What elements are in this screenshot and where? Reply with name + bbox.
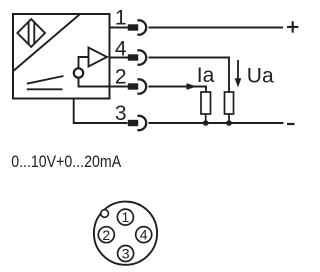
- resistor load Ia bottom lead: [205, 114, 207, 123]
- connector plug pin 4 (rect): [128, 54, 138, 60]
- resistor load Ua: [225, 92, 234, 114]
- inductive sensor symbol (diamond): [17, 19, 45, 47]
- junction dot node A: [203, 120, 209, 126]
- svg-text:0...10V+0...20mA: 0...10V+0...20mA: [11, 153, 121, 171]
- connector plug pin 2 (rect): [128, 83, 138, 89]
- wire 3 negative rail: [149, 122, 284, 124]
- svg-text:3: 3: [115, 102, 127, 125]
- voltage arrow Ua head: [235, 78, 242, 87]
- svg-text:1: 1: [122, 209, 130, 225]
- pin 2 circle: [98, 227, 114, 243]
- connector socket arc 1: [137, 20, 146, 34]
- svg-text:1: 1: [115, 7, 127, 30]
- wire 4 to Ua load: [149, 58, 230, 93]
- voltage arrow Ua shaft: [237, 60, 239, 80]
- wire 1 to plus terminal: [149, 27, 284, 29]
- wire 2 to Ia load: [149, 87, 207, 93]
- connector socket arc 4: [137, 50, 146, 64]
- plus terminal symbol: [287, 21, 298, 32]
- svg-text:2: 2: [115, 66, 127, 89]
- connector socket arc 2: [137, 79, 146, 93]
- keying notch: [101, 210, 109, 218]
- resistor load Ua bottom lead: [228, 114, 230, 123]
- current arrow Ia head: [187, 83, 197, 90]
- wire from amplifier input to output stage: [79, 57, 89, 68]
- svg-text:Ia: Ia: [197, 64, 215, 87]
- minus terminal symbol: [287, 123, 295, 125]
- connector socket arc 3: [137, 116, 146, 130]
- inductive sensor symbol right chord: [33, 22, 35, 44]
- amplifier triangle: [89, 48, 108, 67]
- M12 connector face outline: [94, 202, 157, 265]
- svg-text:2: 2: [102, 227, 110, 243]
- wire 2 from block: [110, 86, 128, 88]
- pin 1 circle: [117, 209, 133, 225]
- connector plug pin 3 (rect): [128, 120, 138, 126]
- adjustment mark lower line: [27, 88, 63, 90]
- pin 3 circle: [118, 246, 134, 262]
- wire 4 from block: [110, 57, 128, 59]
- svg-text:4: 4: [140, 227, 148, 243]
- resistor load Ia: [201, 92, 211, 114]
- junction dot node B: [226, 120, 232, 126]
- pin 4 circle: [136, 227, 152, 243]
- wire from output circle to pin2 exit: [79, 78, 111, 87]
- connector plug pin 1 (rect): [128, 24, 138, 30]
- inductive sensor symbol left chord: [28, 22, 30, 45]
- adjustment mark upper line: [27, 76, 64, 84]
- output stage circle: [74, 68, 83, 77]
- sensor block diagonal divider: [14, 15, 80, 71]
- wire 1 from block: [110, 27, 128, 29]
- svg-text:3: 3: [122, 246, 130, 262]
- svg-text:Ua: Ua: [247, 65, 274, 88]
- wire 3 drop from block bottom: [74, 99, 128, 124]
- sensor block U1 outline: [13, 14, 110, 99]
- svg-text:4: 4: [115, 38, 127, 61]
